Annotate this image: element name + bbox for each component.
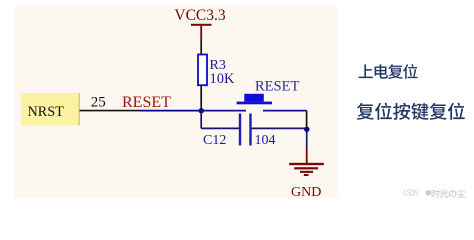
wire: node B down toward ground xyxy=(306,129,308,147)
wire: node A down to capacitor loop xyxy=(200,111,202,129)
svg-text:RESET: RESET xyxy=(255,79,299,95)
ground symbol bar 3 xyxy=(300,171,313,173)
svg-text:CSDN: CSDN xyxy=(403,188,419,198)
junction node A xyxy=(199,108,204,113)
push button S1 cap xyxy=(244,94,263,102)
svg-text:NRST: NRST xyxy=(28,104,65,120)
svg-text:GND: GND xyxy=(291,185,321,200)
watermark @ icon xyxy=(426,190,432,196)
resistor R3 body xyxy=(198,55,207,86)
watermark CJK text 时光の尘 xyxy=(431,189,465,198)
wire: resistor R3 bottom pin to node A xyxy=(200,85,202,111)
pin 25 lead xyxy=(80,110,141,112)
ground symbol bar 1 xyxy=(289,163,324,165)
svg-text:104: 104 xyxy=(255,133,276,148)
schematic canvas background xyxy=(15,5,338,198)
wire: power to resistor R3 top pin xyxy=(200,41,202,55)
power symbol VCC3.3 bar xyxy=(191,24,212,26)
push button S1 bar xyxy=(237,102,272,105)
svg-text:VCC3.3: VCC3.3 xyxy=(174,7,225,24)
annotation text: 复位按键复位 (reset button reset) xyxy=(357,103,465,120)
svg-text:25: 25 xyxy=(91,94,106,110)
wire: button right contact down to node B xyxy=(306,111,308,130)
wire: node A to button S1 left contact xyxy=(201,110,246,112)
NRST component box xyxy=(21,93,80,125)
svg-text:C12: C12 xyxy=(203,133,226,148)
annotation text: 上电复位 (power-on reset) xyxy=(359,64,418,79)
NRST component box right edge xyxy=(78,93,80,125)
capacitor C12 right plate xyxy=(249,114,251,146)
power symbol VCC3.3 lead xyxy=(200,26,202,41)
capacitor C12 left plate xyxy=(239,114,241,146)
wire: button S1 right contact to node B corner xyxy=(263,110,307,112)
wire: left leg to capacitor C12 left plate xyxy=(201,127,239,129)
svg-text:RESET: RESET xyxy=(122,94,171,111)
svg-text:10K: 10K xyxy=(210,71,236,87)
ground symbol bar 4 xyxy=(304,174,309,176)
ground lead xyxy=(306,147,308,163)
junction node B xyxy=(304,127,309,132)
wire: capacitor C12 right plate to node B xyxy=(252,127,307,129)
ground symbol bar 2 xyxy=(294,167,318,169)
wire: pin 25 to node A xyxy=(140,110,201,112)
